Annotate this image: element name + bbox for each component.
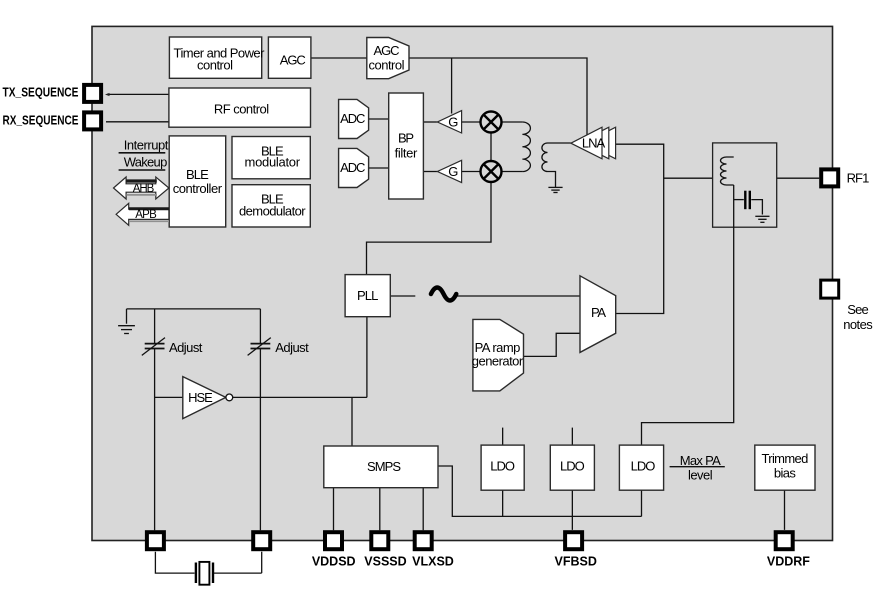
svg-text:AGC: AGC: [280, 53, 306, 68]
svg-text:TX_SEQUENCE: TX_SEQUENCE: [3, 86, 79, 100]
svg-text:PA: PA: [591, 305, 606, 320]
svg-text:RF1: RF1: [847, 170, 870, 185]
svg-text:demodulator: demodulator: [239, 204, 306, 219]
svg-text:notes: notes: [843, 317, 873, 332]
svg-text:filter: filter: [395, 146, 418, 161]
svg-text:LDO: LDO: [631, 458, 656, 473]
svg-text:Trimmed: Trimmed: [761, 451, 808, 466]
svg-text:control: control: [369, 57, 405, 72]
svg-text:generator: generator: [472, 354, 524, 369]
svg-text:Adjust: Adjust: [169, 340, 203, 355]
svg-text:LDO: LDO: [490, 458, 515, 473]
svg-text:G: G: [448, 114, 458, 129]
svg-text:VDDSD: VDDSD: [312, 555, 356, 569]
svg-text:ADC: ADC: [340, 111, 365, 126]
svg-text:ADC: ADC: [340, 160, 365, 175]
svg-text:level: level: [688, 467, 713, 482]
svg-text:AGC: AGC: [374, 43, 400, 58]
svg-text:LDO: LDO: [560, 458, 585, 473]
svg-text:HSE: HSE: [188, 390, 213, 405]
svg-text:BLE: BLE: [186, 167, 209, 182]
svg-text:Interrupt: Interrupt: [124, 138, 169, 153]
svg-text:RF control: RF control: [214, 101, 269, 116]
svg-text:control: control: [197, 57, 233, 72]
svg-text:bias: bias: [774, 465, 797, 480]
svg-text:LNA: LNA: [582, 136, 606, 151]
svg-text:VFBSD: VFBSD: [555, 555, 597, 569]
svg-text:VDDRF: VDDRF: [767, 555, 810, 569]
svg-text:AHB: AHB: [133, 183, 155, 195]
svg-text:APB: APB: [135, 209, 157, 221]
svg-text:See: See: [847, 302, 868, 317]
svg-text:Wakeup: Wakeup: [124, 155, 168, 170]
svg-text:SMPS: SMPS: [367, 459, 401, 474]
svg-text:PA ramp: PA ramp: [475, 340, 521, 355]
svg-text:G: G: [448, 164, 458, 179]
svg-text:BP: BP: [398, 130, 414, 145]
svg-text:controller: controller: [173, 181, 223, 196]
svg-text:RX_SEQUENCE: RX_SEQUENCE: [3, 114, 79, 128]
svg-text:Adjust: Adjust: [275, 340, 309, 355]
svg-text:VSSSD: VSSSD: [364, 555, 406, 569]
svg-text:modulator: modulator: [245, 154, 301, 169]
svg-text:VLXSD: VLXSD: [412, 555, 454, 569]
svg-text:PLL: PLL: [357, 288, 378, 303]
svg-text:Max PA: Max PA: [680, 453, 721, 468]
